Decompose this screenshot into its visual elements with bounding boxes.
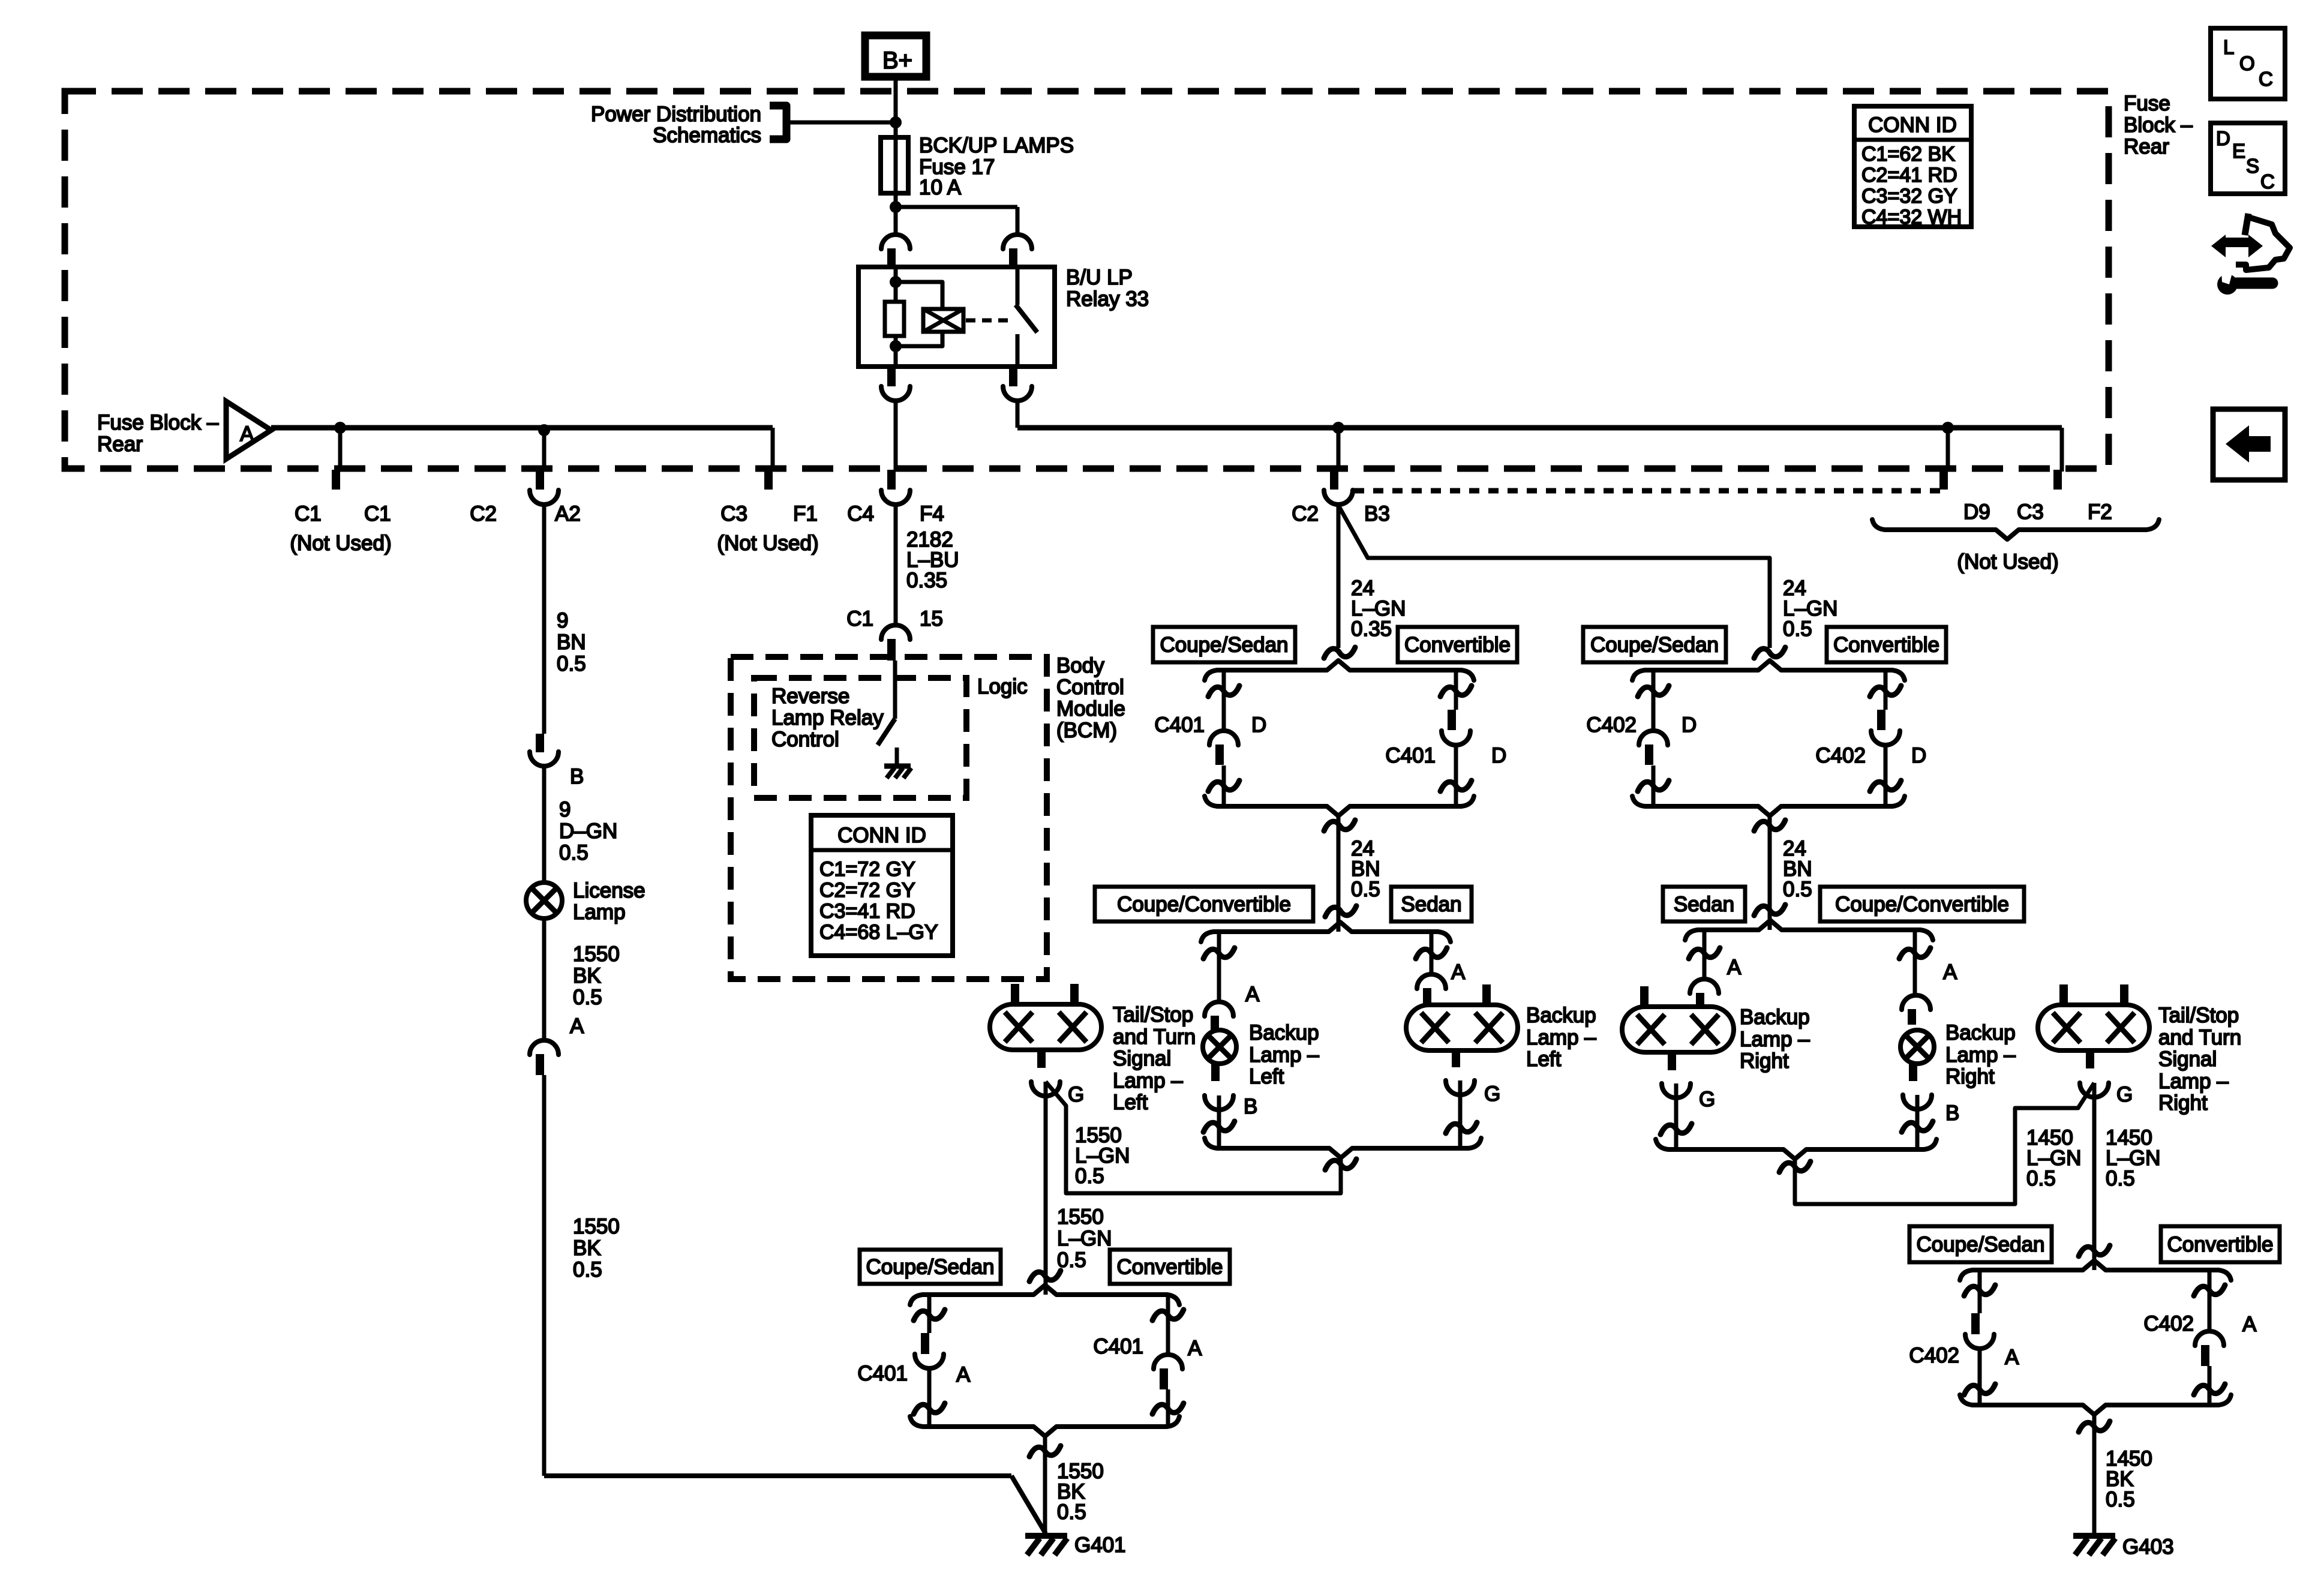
- svg-text:0.5: 0.5: [2026, 1167, 2056, 1190]
- svg-text:D: D: [1251, 713, 1266, 737]
- backup lamp right bulb: [1900, 1030, 1934, 1064]
- svg-text:Module: Module: [1056, 697, 1125, 721]
- svg-text:C401: C401: [1154, 713, 1205, 737]
- wire fuse to relay pins: [896, 205, 1017, 209]
- wire relay switch to right bus: [1016, 401, 1020, 428]
- node D9 stub junction: [1942, 422, 1954, 434]
- bracket power distribution schematics: [770, 106, 786, 139]
- switch reverse lamp relay control: [878, 719, 895, 745]
- svg-text:G401: G401: [1074, 1533, 1126, 1557]
- svg-text:Coupe/Sedan: Coupe/Sedan: [866, 1256, 994, 1279]
- svg-text:C4=32 WH: C4=32 WH: [1861, 206, 1962, 229]
- svg-text:Coupe/Sedan: Coupe/Sedan: [1916, 1233, 2044, 1256]
- svg-text:Signal: Signal: [1113, 1047, 1171, 1070]
- svg-text:G: G: [1699, 1088, 1715, 1111]
- svg-text:Control: Control: [771, 728, 839, 751]
- relay coil branch wire: [894, 267, 898, 302]
- ground G401: [1025, 1533, 1067, 1539]
- svg-text:Lamp –: Lamp –: [1113, 1069, 1183, 1092]
- svg-text:A: A: [2242, 1313, 2257, 1336]
- svg-text:CONN ID: CONN ID: [1868, 113, 1957, 137]
- svg-text:Convertible: Convertible: [1833, 634, 1939, 657]
- svg-text:D9: D9: [1963, 500, 1990, 524]
- wire backup lamp right B branch: [1913, 930, 1917, 995]
- relay 33 B/U LP box: [858, 267, 1055, 367]
- svg-text:B: B: [570, 765, 584, 788]
- svg-text:Backup: Backup: [1740, 1005, 1810, 1029]
- svg-text:C402: C402: [1909, 1344, 1959, 1367]
- wire oval right G to brace: [1674, 1083, 1679, 1149]
- wire break row2 left input: [1325, 906, 1356, 917]
- svg-text:O: O: [2239, 52, 2255, 74]
- svg-text:Fuse: Fuse: [2124, 92, 2170, 115]
- svg-text:C3=41 RD: C3=41 RD: [819, 900, 915, 923]
- svg-text:E: E: [2232, 140, 2245, 162]
- svg-text:C401: C401: [857, 1362, 908, 1385]
- brace row1 right lower: [1632, 796, 1905, 816]
- connector C1 15 BCM: [881, 625, 910, 640]
- svg-text:0.5: 0.5: [1351, 878, 1380, 901]
- svg-text:Reverse: Reverse: [771, 685, 849, 708]
- connector C401 D coupe/sedan: [1222, 670, 1226, 731]
- wire license lamp feed 9 BN: [542, 504, 547, 734]
- wire row3 left to ground: [1043, 1435, 1047, 1535]
- wire left bus from triangle A: [271, 425, 773, 431]
- svg-text:0.5: 0.5: [557, 652, 586, 676]
- connector C401 A convertible: [1166, 1295, 1170, 1355]
- connector pin relay coil bottom: [887, 367, 896, 386]
- wire backup oval left branch: [1430, 932, 1434, 974]
- brace row1 left upper: [1205, 661, 1474, 680]
- svg-text:B3: B3: [1364, 502, 1390, 526]
- connector stub C3 F1 not used: [771, 428, 775, 472]
- dotted connector line: [1354, 488, 1944, 494]
- wire backup oval right branch: [1703, 930, 1707, 979]
- svg-text:Backup: Backup: [1249, 1021, 1319, 1044]
- svg-text:B: B: [1244, 1095, 1257, 1118]
- svg-text:Lamp –: Lamp –: [1740, 1028, 1810, 1051]
- svg-text:C402: C402: [1586, 713, 1637, 737]
- svg-text:0.5: 0.5: [573, 986, 602, 1009]
- connector B backup lamp right: [1909, 1063, 1917, 1081]
- svg-text:C1: C1: [364, 502, 391, 526]
- svg-text:C1: C1: [846, 607, 873, 631]
- svg-text:9: 9: [559, 798, 571, 821]
- brace row1 left lower: [1205, 796, 1474, 816]
- svg-text:0.5: 0.5: [1057, 1500, 1086, 1524]
- wire tail left G down: [1044, 1082, 1048, 1295]
- svg-text:BN: BN: [557, 631, 586, 654]
- connector C402 D convertible: [1884, 670, 1888, 710]
- svg-text:A: A: [1451, 960, 1466, 984]
- svg-text:(Not Used): (Not Used): [717, 532, 818, 555]
- svg-text:Tail/Stop: Tail/Stop: [2158, 1004, 2239, 1027]
- svg-text:Sedan: Sedan: [1401, 893, 1461, 916]
- svg-text:Logic: Logic: [977, 675, 1028, 698]
- box coupe/sedan row1 right: [1583, 627, 1726, 662]
- tail stop right lamp: [2038, 1005, 2149, 1050]
- svg-text:A: A: [956, 1363, 971, 1386]
- svg-text:C401: C401: [1093, 1335, 1143, 1358]
- svg-text:Lamp –: Lamp –: [1249, 1043, 1319, 1067]
- svg-text:C3: C3: [2017, 500, 2044, 524]
- svg-text:(Not Used): (Not Used): [1957, 550, 2058, 574]
- wire backup left B to brace: [1217, 1095, 1221, 1148]
- svg-text:CONN ID: CONN ID: [837, 824, 926, 847]
- svg-text:C: C: [2259, 68, 2273, 90]
- brace row3 left upper: [910, 1285, 1179, 1305]
- svg-text:Convertible: Convertible: [2167, 1233, 2273, 1256]
- box convertible row1 right: [1827, 627, 1946, 662]
- svg-text:G: G: [1068, 1083, 1084, 1106]
- node junction above fuse: [890, 116, 902, 128]
- wire break row3 left output: [1029, 1446, 1061, 1457]
- svg-text:and Turn: and Turn: [1113, 1025, 1196, 1049]
- svg-text:Lamp: Lamp: [573, 900, 626, 924]
- svg-text:Left: Left: [1526, 1047, 1562, 1071]
- wire row3 right to ground: [2092, 1414, 2097, 1535]
- svg-text:Lamp –: Lamp –: [2158, 1070, 2229, 1093]
- brace row3 right upper: [1960, 1260, 2231, 1280]
- connector stub F2: [2060, 428, 2064, 472]
- stub pin oval left: [1482, 984, 1491, 1006]
- svg-text:B+: B+: [882, 47, 912, 74]
- svg-text:C4=68 L–GY: C4=68 L–GY: [819, 921, 938, 944]
- box coupe/sedan row3 left: [860, 1250, 1001, 1284]
- wire tail right G down: [2092, 1083, 2097, 1270]
- box coupe/sedan row3 right: [1909, 1226, 2052, 1262]
- connector C2 A2: [542, 428, 547, 472]
- connector A backup lamp left: [1205, 1002, 1233, 1016]
- relay coil: [923, 309, 963, 332]
- svg-text:A: A: [1188, 1337, 1202, 1360]
- connector C402 D coupe/sedan: [1652, 670, 1656, 731]
- connector C401 A coupe/sedan: [927, 1295, 932, 1333]
- wire license lamp ground run: [542, 1075, 547, 1476]
- brace row2 right upper: [1685, 920, 1933, 940]
- svg-text:C1=72 GY: C1=72 GY: [819, 858, 915, 881]
- connector C2 B3: [1337, 428, 1341, 472]
- connector A oval right: [1690, 979, 1719, 993]
- box coupe/convertible row2 right: [1820, 887, 2024, 921]
- wire B+ stem: [894, 80, 898, 137]
- svg-text:0.5: 0.5: [559, 841, 588, 864]
- svg-text:Fuse Block –: Fuse Block –: [97, 411, 219, 434]
- svg-text:C3=32 GY: C3=32 GY: [1861, 185, 1957, 208]
- svg-text:(Not Used): (Not Used): [290, 532, 391, 555]
- svg-text:BK: BK: [573, 964, 601, 987]
- stub pin oval right: [1640, 986, 1649, 1008]
- svg-text:BK: BK: [573, 1236, 601, 1260]
- connector C402 A convertible: [2208, 1270, 2212, 1331]
- connector pin relay coil top: [881, 235, 910, 249]
- svg-text:Rear: Rear: [97, 433, 143, 456]
- connector C402 A coupe/sedan: [1978, 1270, 1982, 1313]
- wire C2 B3 to left lamp group: [1337, 504, 1341, 648]
- svg-text:Block –: Block –: [2124, 113, 2193, 137]
- brace not used D9 C3 F2: [1872, 520, 2159, 539]
- wire break row1 right output: [1754, 820, 1785, 831]
- svg-text:and Turn: and Turn: [2158, 1026, 2241, 1049]
- svg-text:0.5: 0.5: [2106, 1488, 2135, 1511]
- svg-text:C2: C2: [1292, 502, 1319, 526]
- wire BCM internal: [893, 661, 897, 719]
- svg-text:0.5: 0.5: [2106, 1167, 2135, 1190]
- B+ power node box: [865, 35, 926, 77]
- svg-text:0.5: 0.5: [1783, 617, 1812, 641]
- wire row2 left output: [1046, 1082, 1341, 1193]
- wire break row1 right input: [1754, 647, 1785, 658]
- svg-text:Rear: Rear: [2124, 135, 2169, 158]
- svg-text:BCK/UP LAMPS: BCK/UP LAMPS: [919, 134, 1074, 157]
- svg-text:Convertible: Convertible: [1404, 634, 1511, 657]
- stub pins tail stop right: [2059, 984, 2068, 1006]
- svg-text:C3: C3: [720, 502, 747, 526]
- svg-text:Control: Control: [1056, 676, 1124, 699]
- triangle A fuse block feed: [226, 401, 271, 459]
- svg-text:A: A: [240, 422, 254, 446]
- wire row1 right to row2: [1768, 815, 1772, 930]
- brace row3 left lower: [910, 1416, 1179, 1436]
- wire break row1 left input: [1324, 647, 1355, 658]
- box convertible row3 right: [2161, 1226, 2280, 1262]
- box coupe/convertible row2 left: [1095, 887, 1313, 921]
- BCM dashed box: [731, 657, 1047, 979]
- wire license ground horizontal: [544, 1473, 1011, 1478]
- svg-text:Right: Right: [1740, 1049, 1789, 1073]
- box convertible row3 left: [1110, 1250, 1230, 1284]
- connector stub C1 not used: [338, 428, 343, 472]
- wire license lamp to connector A: [542, 918, 547, 1040]
- svg-text:Lamp Relay: Lamp Relay: [771, 706, 884, 730]
- svg-text:Coupe/Sedan: Coupe/Sedan: [1160, 634, 1288, 657]
- svg-text:D: D: [2216, 127, 2230, 149]
- icon LOC box: [2211, 28, 2285, 99]
- svg-text:A: A: [570, 1014, 584, 1038]
- wire break row3 right output: [2079, 1421, 2110, 1432]
- license lamp: [526, 882, 562, 918]
- svg-text:Body: Body: [1056, 654, 1104, 677]
- svg-text:0.5: 0.5: [1075, 1164, 1104, 1188]
- fuse 17 BCK/UP LAMPS: [894, 122, 898, 207]
- connector stub D9: [1946, 428, 1950, 472]
- svg-text:Signal: Signal: [2158, 1047, 2217, 1071]
- node C2 A2 junction: [538, 424, 550, 436]
- svg-text:Power Distribution: Power Distribution: [591, 103, 761, 126]
- CONN ID table fuse block: [1854, 106, 1971, 227]
- connector G oval right: [1668, 1052, 1676, 1070]
- svg-text:Left: Left: [1113, 1091, 1148, 1114]
- svg-text:B: B: [1945, 1101, 1959, 1125]
- brace row2 left upper: [1201, 922, 1451, 942]
- backup lamp left dual: [1406, 1005, 1518, 1050]
- svg-text:0.5: 0.5: [1057, 1248, 1086, 1272]
- svg-text:C4: C4: [847, 502, 874, 526]
- svg-text:Lamp –: Lamp –: [1526, 1026, 1596, 1049]
- ground G403: [2073, 1533, 2115, 1539]
- svg-text:A2: A2: [555, 502, 581, 526]
- fuse block rear dashed border: [65, 91, 2109, 469]
- svg-text:G: G: [1484, 1082, 1500, 1106]
- stub pins tail stop left: [1011, 984, 1019, 1005]
- connector pin relay switch top: [1003, 235, 1032, 249]
- svg-text:License: License: [573, 879, 645, 902]
- brace row2 left lower: [1205, 1138, 1481, 1158]
- svg-text:Convertible: Convertible: [1116, 1256, 1223, 1279]
- svg-text:0.5: 0.5: [1783, 878, 1812, 901]
- wire row1 left to row2: [1337, 815, 1341, 932]
- svg-text:Tail/Stop: Tail/Stop: [1113, 1003, 1193, 1026]
- connector A oval left: [1417, 974, 1446, 989]
- relay resistor: [885, 302, 904, 336]
- svg-text:9: 9: [557, 609, 568, 632]
- ground BCM internal: [895, 748, 899, 766]
- svg-text:D: D: [1682, 713, 1697, 737]
- svg-text:C402: C402: [2143, 1312, 2194, 1335]
- backup lamp left bulb: [1203, 1030, 1236, 1064]
- box sedan row2 left: [1391, 887, 1472, 921]
- connector A backup lamp right: [1902, 995, 1930, 1010]
- tail stop left lamp: [990, 1004, 1101, 1050]
- wire break row2 right output: [1779, 1161, 1810, 1172]
- svg-text:C401: C401: [1385, 744, 1436, 767]
- svg-text:C2=72 GY: C2=72 GY: [819, 879, 915, 902]
- relay dashed actuator link: [966, 319, 1010, 323]
- wire 2182 to BCM: [894, 504, 898, 626]
- svg-text:D: D: [1911, 744, 1926, 767]
- svg-text:C1: C1: [295, 502, 322, 526]
- connector G oval left: [1452, 1050, 1460, 1067]
- box sedan row2 right: [1663, 887, 1745, 921]
- node junction below fuse: [890, 201, 902, 213]
- connector C4 F4: [894, 401, 898, 472]
- svg-text:A: A: [1245, 983, 1260, 1006]
- svg-text:(BCM): (BCM): [1056, 719, 1117, 742]
- svg-text:C: C: [2260, 170, 2275, 193]
- wire row2 right output: [1795, 1083, 2094, 1204]
- wire break row2 left output: [1325, 1159, 1356, 1170]
- wire C2 B3 to right lamp group: [1340, 508, 1770, 648]
- svg-text:G: G: [2116, 1083, 2133, 1106]
- svg-text:F1: F1: [793, 502, 818, 526]
- svg-text:Schematics: Schematics: [653, 124, 761, 147]
- icon DESC box: [2211, 123, 2285, 194]
- brace row1 right upper: [1632, 661, 1905, 680]
- svg-text:G403: G403: [2122, 1535, 2174, 1559]
- svg-text:Coupe/Convertible: Coupe/Convertible: [1835, 893, 2009, 916]
- connector G tail stop left: [1037, 1050, 1046, 1068]
- svg-text:Coupe/Convertible: Coupe/Convertible: [1117, 893, 1291, 916]
- logic dashed box: [754, 678, 966, 798]
- wire backup lamp left A branch: [1217, 932, 1221, 1002]
- svg-text:L–GN: L–GN: [1057, 1227, 1112, 1250]
- svg-text:D–GN: D–GN: [559, 819, 617, 843]
- svg-text:Right: Right: [1945, 1065, 1995, 1088]
- svg-text:C1=62 BK: C1=62 BK: [1861, 143, 1955, 166]
- wire oval left G to brace: [1458, 1080, 1463, 1148]
- svg-text:S: S: [2246, 155, 2259, 177]
- svg-text:C402: C402: [1815, 744, 1866, 767]
- backup lamp right dual: [1622, 1007, 1734, 1052]
- svg-text:Backup: Backup: [1526, 1004, 1596, 1027]
- node C2 B3 junction: [1332, 422, 1344, 434]
- svg-text:A: A: [1727, 956, 1742, 979]
- svg-text:Sedan: Sedan: [1674, 893, 1734, 916]
- connector C401 D convertible: [1454, 670, 1458, 710]
- icon replace arrow wrench: [2223, 238, 2251, 247]
- relay switch: [1016, 267, 1020, 305]
- svg-text:Right: Right: [2158, 1091, 2208, 1115]
- svg-text:1550: 1550: [1057, 1205, 1104, 1229]
- svg-text:15: 15: [920, 607, 943, 631]
- svg-text:0.5: 0.5: [573, 1258, 602, 1281]
- connector A license lamp: [530, 1040, 559, 1055]
- svg-text:D: D: [1491, 744, 1506, 767]
- connector G tail stop right: [2086, 1050, 2094, 1068]
- svg-text:Backup: Backup: [1945, 1021, 2016, 1044]
- wire backup right B to brace: [1915, 1095, 1920, 1149]
- svg-text:10 A: 10 A: [919, 176, 962, 199]
- svg-text:B/U LP: B/U LP: [1066, 266, 1133, 289]
- wire break row1 left output: [1324, 820, 1355, 831]
- wire break row2 right input: [1754, 905, 1785, 915]
- box convertible row1 left: [1398, 627, 1517, 662]
- svg-text:Lamp –: Lamp –: [1945, 1043, 2016, 1067]
- svg-text:F2: F2: [2088, 500, 2112, 524]
- wire to license lamp: [542, 766, 547, 884]
- connector B license lamp: [536, 734, 544, 752]
- svg-text:1550: 1550: [573, 942, 620, 966]
- connector pin relay switch bottom: [1009, 367, 1017, 386]
- brace row2 right lower: [1656, 1139, 1936, 1159]
- CONN ID table BCM: [811, 815, 953, 956]
- svg-text:L: L: [2223, 36, 2234, 58]
- icon back arrow box: [2213, 409, 2285, 480]
- svg-text:F4: F4: [920, 502, 944, 526]
- svg-text:A: A: [2005, 1346, 2019, 1369]
- svg-text:C2=41 RD: C2=41 RD: [1861, 164, 1957, 187]
- svg-text:1550: 1550: [573, 1215, 620, 1238]
- box coupe/sedan row1 left: [1153, 627, 1295, 662]
- brace row3 right lower: [1960, 1395, 2231, 1415]
- svg-text:Coupe/Sedan: Coupe/Sedan: [1590, 634, 1719, 657]
- svg-text:0.35: 0.35: [1351, 617, 1392, 641]
- svg-text:A: A: [1943, 960, 1957, 984]
- svg-text:C2: C2: [470, 502, 497, 526]
- svg-text:Relay 33: Relay 33: [1066, 287, 1149, 311]
- svg-text:Left: Left: [1249, 1065, 1284, 1088]
- node C1 stub junction: [334, 422, 346, 434]
- connector B backup lamp left: [1211, 1063, 1220, 1081]
- svg-text:0.35: 0.35: [906, 569, 947, 592]
